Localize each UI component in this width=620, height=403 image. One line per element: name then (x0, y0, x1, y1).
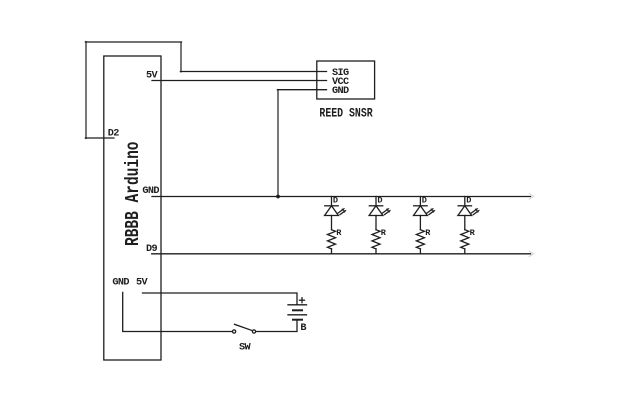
wire bottom GND to switch (123, 292, 233, 331)
svg-text:R: R (381, 228, 387, 238)
LED D1 (325, 196, 347, 230)
wire bottom 5V to battery (143, 293, 298, 305)
wire D9 rail (152, 253, 531, 255)
svg-text:GND: GND (112, 278, 129, 289)
anode triangle (325, 206, 339, 216)
node junction (276, 195, 280, 199)
LED D2 (369, 196, 391, 230)
svg-text:GND: GND (332, 86, 349, 97)
emission arrow 1 (383, 210, 387, 213)
battery B (288, 298, 307, 320)
emission arrow 2 (429, 212, 433, 215)
cathode bar (458, 205, 471, 207)
wire outer vertical (85, 42, 87, 139)
cathode bar (369, 205, 382, 207)
wire D2 pin (85, 137, 114, 139)
lever (235, 324, 253, 330)
LED D3 (414, 196, 436, 230)
emission arrow 2 (340, 212, 344, 215)
resistor R3 (416, 228, 431, 254)
plate + long (288, 304, 307, 306)
resistor R4 (461, 228, 476, 254)
wire (419, 197, 421, 206)
plus sign (300, 299, 305, 301)
svg-text:GND: GND (142, 186, 159, 197)
emission arrow 1 (338, 210, 342, 213)
svg-text:RBBB Arduino: RBBB Arduino (122, 142, 144, 247)
plate + long (288, 314, 307, 316)
wire 5V to VCC (152, 80, 327, 82)
svg-text:D: D (422, 196, 427, 206)
cathode bar (325, 205, 338, 207)
wire (464, 216, 466, 230)
svg-text:REED SNSR: REED SNSR (319, 107, 373, 121)
LED D4 (458, 196, 480, 230)
wire drop to SIG (180, 42, 182, 72)
wire drop to GND rail (277, 90, 279, 197)
wire top horizontal (85, 41, 181, 43)
open end marker (D9 rail) (529, 251, 533, 257)
anode triangle (458, 206, 472, 216)
switch SW (233, 324, 256, 333)
contact (252, 330, 255, 333)
svg-text:R: R (336, 228, 342, 238)
anode triangle (369, 206, 383, 216)
plate - short (293, 319, 302, 321)
wire GND rail (152, 196, 531, 198)
wire (375, 216, 377, 230)
wire switch to battery (256, 320, 297, 332)
wire to SIG pin (180, 71, 326, 73)
emission arrow 2 (473, 212, 477, 215)
plate - short (293, 309, 302, 311)
wire (331, 197, 333, 206)
svg-text:SW: SW (239, 343, 252, 354)
sensor U2 REED SNSR box (317, 61, 375, 99)
svg-text:5V: 5V (136, 278, 149, 289)
wire (464, 197, 466, 206)
resistor R2 (372, 228, 387, 254)
svg-text:R: R (425, 228, 431, 238)
wire (419, 216, 421, 230)
contact (233, 330, 236, 333)
wire (375, 197, 377, 206)
cathode bar (414, 205, 427, 207)
emission arrow 1 (471, 210, 475, 213)
wire (331, 216, 333, 230)
anode triangle (414, 206, 428, 216)
open end marker (GND rail) (529, 194, 533, 200)
resistor R1 (328, 228, 343, 254)
emission arrow 1 (427, 210, 431, 213)
wire REED GND pin (277, 89, 326, 91)
emission arrow 2 (385, 212, 389, 215)
svg-text:D: D (377, 196, 382, 206)
svg-text:D: D (333, 196, 338, 206)
svg-text:D: D (466, 196, 471, 206)
svg-text:B: B (300, 323, 306, 334)
svg-text:R: R (470, 228, 476, 238)
IC U1 RBBB Arduino box (104, 56, 161, 360)
